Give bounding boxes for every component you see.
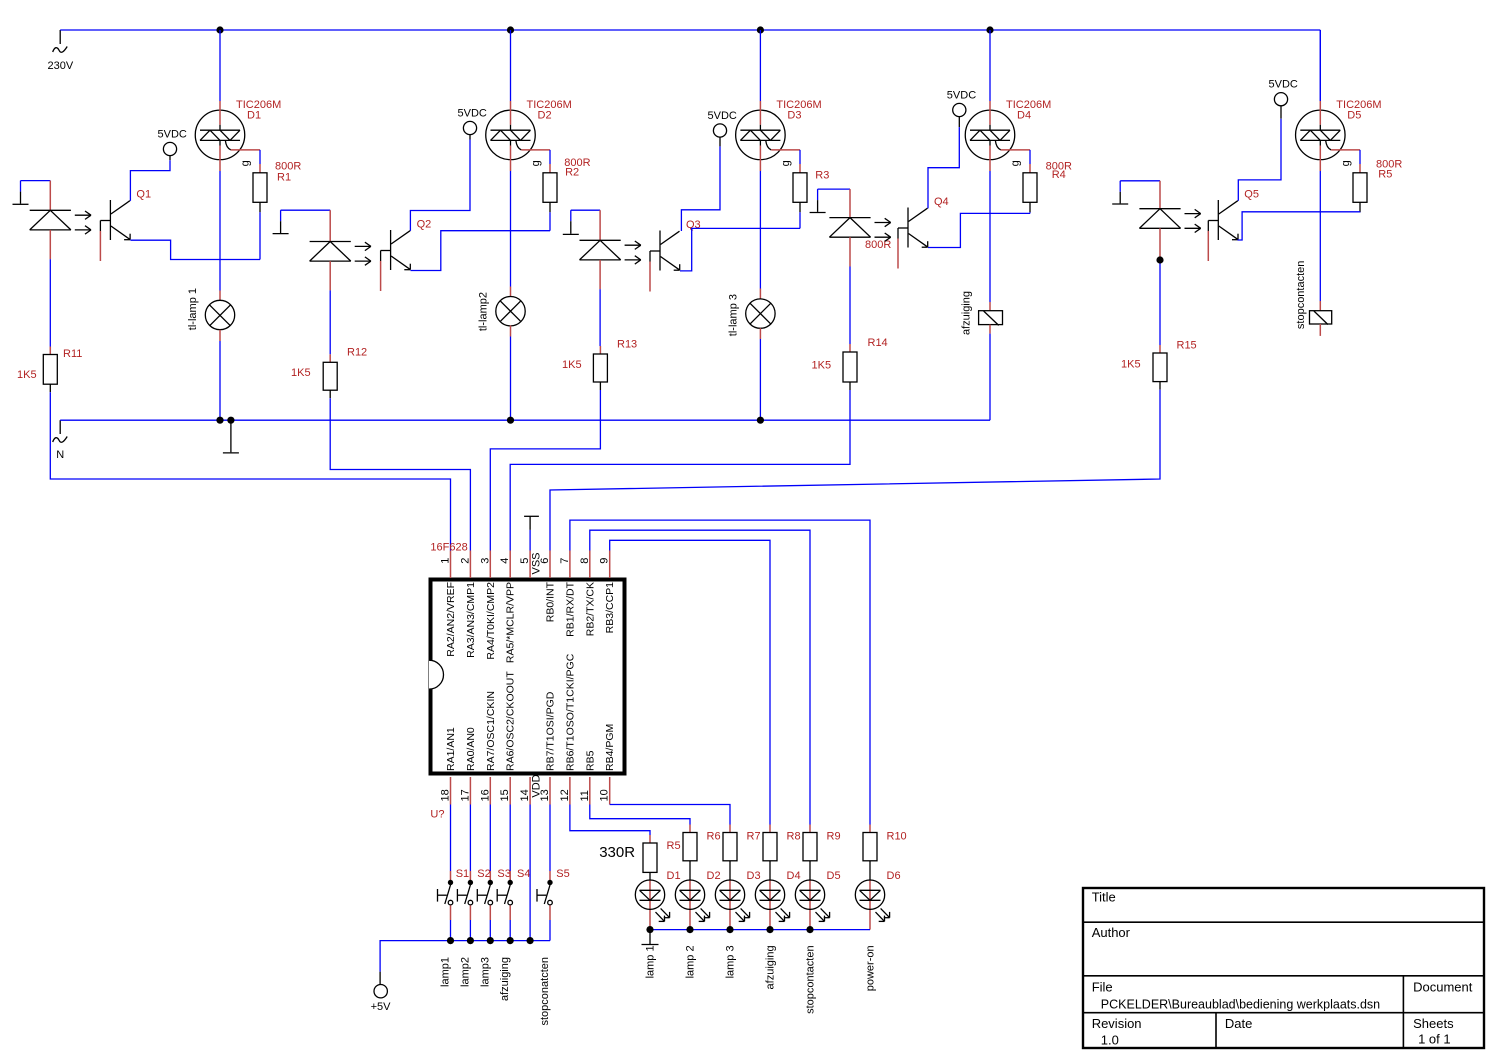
resistor R8 330R: [763, 825, 777, 861]
junction top rail / triac D3: [757, 26, 764, 33]
svg-text:RB1/RX/DT: RB1/RX/DT: [564, 581, 576, 636]
svg-text:Date: Date: [1225, 1016, 1252, 1031]
resistor R5 800R gate resistor: [1353, 150, 1402, 212]
transistor Q3 phototransistor: [650, 219, 701, 292]
svg-text:S5: S5: [556, 868, 569, 880]
label R9 D5: [827, 831, 841, 883]
wire R5 to Q5 emitter net: [1359, 211, 1361, 214]
svg-text:Document: Document: [1413, 980, 1473, 995]
svg-text:RB4/PGM: RB4/PGM: [604, 724, 616, 771]
svg-text:RA4/T0KI/CMP2: RA4/T0KI/CMP2: [485, 582, 497, 660]
svg-text:g: g: [240, 160, 252, 166]
wire VDD pin 14 to +5V bus: [529, 805, 531, 941]
PIC pin 14 bottom: [519, 777, 531, 805]
wire opto LED to 1K5 resistor stage 5: [1159, 258, 1161, 345]
svg-text:1.0: 1.0: [1101, 1032, 1119, 1047]
svg-text:D1: D1: [667, 870, 681, 882]
switch S2: [457, 868, 490, 920]
junction +5V bus: [507, 937, 514, 944]
svg-text:R14: R14: [868, 337, 888, 349]
svg-text:RB0/INT: RB0/INT: [545, 581, 557, 622]
junction +5V bus: [527, 937, 534, 944]
wire Q1 emitter to gate resistor: [130, 240, 260, 259]
svg-text:RA6/OSC2/CKOOUT: RA6/OSC2/CKOOUT: [505, 671, 517, 771]
wire triac D1 to lamp tl-lamp 1: [219, 171, 221, 291]
svg-text:R3: R3: [815, 170, 829, 182]
svg-text:S4: S4: [517, 868, 530, 880]
junction LED bus D4: [766, 926, 773, 933]
junction ground / N rail: [227, 417, 234, 424]
wire Q2 emitter to gate resistor: [411, 231, 551, 271]
wire triac D4 to relay afzuiging: [989, 171, 991, 302]
junction +5V bus: [487, 937, 494, 944]
PIC pin 5 top: [519, 551, 531, 579]
PIC pin 15 bottom: [499, 671, 517, 805]
ground opto LED stage 5: [1112, 181, 1128, 204]
resistor R11 1K5: [43, 347, 57, 393]
svg-text:N: N: [56, 449, 64, 461]
svg-text:RA7/OSC1/CKIN: RA7/OSC1/CKIN: [485, 691, 497, 771]
svg-text:power-on: power-on: [865, 945, 877, 991]
PIC pin 18 bottom: [440, 727, 458, 804]
wire PIC pin 10 to R7: [610, 805, 730, 825]
junction +5V bus: [447, 937, 454, 944]
junction LED bus D1: [646, 926, 653, 933]
svg-text:lamp2: lamp2: [459, 957, 471, 987]
svg-text:lamp 2: lamp 2: [685, 945, 697, 978]
terminal 5VDC stage 1: [158, 129, 187, 161]
svg-text:Q1: Q1: [136, 189, 151, 201]
svg-text:Sheets: Sheets: [1413, 1016, 1454, 1031]
transistor Q2 phototransistor: [381, 219, 432, 292]
svg-text:U?: U?: [430, 808, 444, 820]
wire Q4 emitter to gate resistor: [928, 213, 1030, 247]
terminal +5V: [371, 972, 392, 1013]
wire PIC to switch S1: [450, 805, 452, 872]
wire 5VDC to Q4 collector: [928, 127, 959, 208]
svg-text:800R: 800R: [865, 239, 891, 251]
svg-text:D6: D6: [887, 870, 901, 882]
junction LED bus D2: [686, 926, 693, 933]
wire PIC to switch S4: [509, 805, 511, 872]
svg-text:RA3/AN3/CMP1: RA3/AN3/CMP1: [465, 582, 477, 658]
label R6 D2: [707, 831, 721, 883]
wire triac D3 to lamp tl-lamp 3: [759, 171, 761, 289]
wire R15 to PIC pin 6: [550, 390, 1160, 551]
PIC pin 8 top: [579, 551, 597, 637]
junction lamp2 / N rail: [507, 417, 514, 424]
PIC pin 1 top: [440, 551, 458, 657]
relay coil afzuiging: [961, 291, 1003, 335]
terminal 5VDC stage 4: [947, 90, 976, 128]
wire switch S1 to +5V bus: [450, 920, 452, 941]
svg-text:+5V: +5V: [371, 1001, 392, 1013]
lamp tl-lamp2: [478, 287, 526, 337]
svg-text:16: 16: [479, 789, 491, 801]
svg-text:R2: R2: [565, 167, 579, 179]
svg-text:R7: R7: [747, 831, 761, 843]
junction lamp3 / N rail: [757, 417, 764, 424]
svg-text:lamp1: lamp1: [440, 957, 452, 987]
junction +5V bus: [467, 937, 474, 944]
resistor R4 800R gate resistor: [1023, 150, 1072, 212]
wire R3 to Q3 emitter net: [799, 212, 801, 228]
ground opto LED stage 3: [563, 210, 579, 234]
wire PIC pin 12 to R5: [570, 805, 650, 836]
svg-text:D2: D2: [707, 870, 721, 882]
svg-text:RB3/CCP1: RB3/CCP1: [604, 582, 616, 634]
ground opto LED stage 1: [13, 181, 29, 205]
wire PIC pin 9 to R8: [610, 540, 770, 824]
svg-text:Q5: Q5: [1244, 189, 1259, 201]
wire rail to triac D1: [219, 30, 221, 101]
wire 5VDC to Q3 collector: [681, 146, 720, 231]
LED D1: [635, 872, 669, 929]
source 230V phase terminal: [48, 30, 74, 72]
triac D4 TIC206M: [965, 99, 1051, 171]
junction top rail / triac D2: [507, 26, 514, 33]
svg-text:3: 3: [479, 558, 491, 564]
svg-text:Author: Author: [1092, 925, 1131, 940]
svg-text:5VDC: 5VDC: [708, 110, 737, 122]
svg-text:g: g: [1010, 160, 1022, 166]
svg-text:lamp 3: lamp 3: [725, 945, 737, 978]
svg-text:330R: 330R: [599, 844, 635, 861]
svg-text:R11: R11: [63, 348, 82, 360]
svg-text:g: g: [530, 160, 542, 166]
wire R14 to PIC pin 4: [510, 390, 850, 551]
opto LED diode stage 2: [310, 210, 371, 290]
wire switch S2 to +5V bus: [469, 920, 471, 941]
wire triac D2 to lamp tl-lamp2: [510, 171, 512, 287]
wire switch S3 to +5V bus: [489, 920, 491, 941]
LED D4: [755, 861, 789, 930]
wire switch S5 to +5V bus: [549, 920, 551, 941]
svg-text:D5: D5: [1347, 110, 1361, 122]
wire 5VDC to Q5 collector: [1238, 119, 1281, 201]
svg-text:5VDC: 5VDC: [158, 129, 187, 141]
svg-text:230V: 230V: [48, 60, 74, 72]
wire lamp 1 to N rail: [219, 341, 221, 420]
LED D5: [795, 861, 829, 930]
wire rail to triac D5: [1319, 30, 1321, 101]
wire ground to opto LED stage 1: [21, 180, 51, 182]
svg-text:R5: R5: [1378, 169, 1392, 181]
resistor R3 800R gate resistor: [793, 150, 891, 251]
source N neutral terminal: [53, 420, 67, 461]
PIC pin 13 bottom: [539, 691, 557, 804]
svg-text:D2: D2: [538, 110, 552, 122]
svg-text:RA1/AN1: RA1/AN1: [445, 727, 457, 771]
svg-text:R12: R12: [347, 347, 367, 359]
svg-text:11: 11: [579, 790, 591, 801]
triac D2 TIC206M: [486, 99, 572, 171]
svg-text:4: 4: [499, 558, 511, 564]
svg-text:7: 7: [559, 558, 571, 564]
junction LED bus D3: [726, 926, 733, 933]
svg-text:tl-lamp 3: tl-lamp 3: [728, 294, 740, 336]
resistor R13 1K5: [593, 346, 607, 390]
svg-text:afzuiging: afzuiging: [765, 945, 777, 989]
wire R11 to PIC pin 1: [50, 392, 450, 550]
opto LED diode stage 3: [580, 210, 641, 289]
PIC pin 7 top: [559, 551, 577, 637]
resistor R12 1K5: [323, 354, 337, 398]
svg-text:10: 10: [599, 789, 611, 801]
ground LED bus: [642, 930, 659, 945]
LED D6: [855, 861, 889, 930]
wire R12 to PIC pin 2: [330, 398, 470, 550]
wire Q3 emitter to gate resistor: [680, 228, 800, 271]
transistor Q5 phototransistor: [1208, 189, 1259, 262]
svg-text:tl-lamp2: tl-lamp2: [478, 292, 490, 331]
svg-text:D1: D1: [247, 110, 261, 122]
terminal 5VDC stage 2: [458, 108, 487, 140]
wire +5V bus: [380, 941, 550, 972]
IC U? PIC 16F628: [429, 542, 625, 821]
opto LED diode stage 4: [829, 189, 890, 266]
wire PIC to switch S3: [489, 805, 491, 872]
svg-text:D4: D4: [787, 870, 801, 882]
wire rail to triac D4: [989, 30, 991, 101]
PIC pin 6 top: [539, 551, 557, 623]
wire PIC pin 11 to R6: [590, 805, 690, 825]
svg-text:Revision: Revision: [1092, 1016, 1142, 1031]
svg-text:2: 2: [459, 558, 471, 564]
ground N rail: [223, 420, 239, 453]
PIC pin 4 top: [499, 551, 517, 664]
PIC pin 9 top: [599, 551, 617, 634]
svg-text:9: 9: [599, 558, 611, 564]
label R8 D4: [787, 831, 801, 883]
terminal 5VDC stage 3: [708, 110, 737, 146]
svg-text:1K5: 1K5: [812, 359, 832, 371]
svg-text:RA2/AN2/VREF: RA2/AN2/VREF: [445, 582, 457, 657]
wire afzuiging to N rail: [989, 334, 991, 421]
ground opto LED stage 2: [273, 210, 289, 233]
svg-text:R10: R10: [887, 831, 907, 843]
junction opto LED 5 anode: [1156, 256, 1163, 263]
svg-text:5VDC: 5VDC: [458, 108, 487, 120]
wire rail to triac D3: [759, 30, 761, 101]
svg-text:afzuiging: afzuiging: [499, 957, 511, 1001]
wire 230V top rail: [60, 29, 1320, 31]
switch S5: [537, 868, 570, 920]
PIC pin 2 top: [459, 551, 477, 658]
svg-text:R6: R6: [707, 831, 721, 843]
svg-text:Q4: Q4: [934, 196, 949, 208]
wire ground to opto LED stage 4: [818, 188, 850, 190]
svg-text:S1: S1: [456, 868, 469, 880]
svg-text:lamp3: lamp3: [479, 957, 491, 987]
svg-text:R1: R1: [277, 172, 291, 184]
svg-text:Title: Title: [1092, 890, 1116, 905]
label R7 D3: [747, 831, 761, 883]
svg-text:Q3: Q3: [686, 219, 701, 231]
svg-text:R13: R13: [617, 338, 637, 350]
svg-text:12: 12: [559, 789, 571, 801]
svg-text:RA0/AN0: RA0/AN0: [465, 727, 477, 771]
svg-text:5: 5: [519, 558, 531, 564]
switch S3: [477, 868, 511, 920]
svg-text:1K5: 1K5: [17, 369, 37, 381]
wire R13 to PIC pin 3: [490, 390, 600, 551]
resistor R1 800R gate resistor: [253, 150, 301, 212]
transistor Q1 phototransistor: [100, 189, 151, 262]
PIC pin 12 bottom: [559, 653, 577, 804]
wire PIC pin 7 to R10: [570, 520, 870, 824]
svg-text:File: File: [1092, 980, 1113, 995]
resistor R2 800R gate resistor: [543, 150, 591, 212]
svg-text:S2: S2: [477, 868, 490, 880]
triac D5 TIC206M: [1296, 99, 1382, 171]
wire rail to triac D2: [510, 30, 512, 101]
svg-text:g: g: [1340, 160, 1352, 166]
svg-text:R5: R5: [667, 840, 681, 852]
LED D3: [715, 861, 749, 930]
wire PIC to switch S5: [549, 805, 551, 872]
wire PIC pin 8 to R9: [590, 530, 810, 824]
svg-text:5VDC: 5VDC: [947, 90, 976, 102]
junction top rail / triac D1: [216, 26, 223, 33]
svg-text:stopcontacten: stopcontacten: [805, 945, 817, 1014]
opto LED diode stage 5: [1139, 181, 1200, 258]
resistor R9 330R: [803, 825, 817, 861]
opto LED diode stage 1: [30, 181, 91, 260]
transistor Q4 phototransistor: [898, 196, 949, 269]
triac D3 TIC206M: [736, 99, 822, 171]
label R10 D6: [887, 831, 907, 883]
label R5 D1: [667, 840, 681, 882]
svg-text:8: 8: [579, 558, 591, 564]
wire opto LED to 1K5 resistor stage 3: [599, 289, 601, 346]
resistor R15 1K5: [1153, 345, 1167, 390]
relay coil stopcontacten: [1295, 261, 1332, 336]
junction lamp1 / N rail: [216, 417, 223, 424]
resistor R5 330R: [643, 835, 657, 872]
LED D2: [675, 861, 709, 930]
wire triac D5 to relay stopcontacten: [1319, 30, 1321, 101]
svg-text:afzuiging: afzuiging: [961, 291, 973, 335]
svg-text:D3: D3: [787, 110, 801, 122]
svg-text:1 of 1: 1 of 1: [1418, 1032, 1451, 1047]
junction top rail / triac D4: [986, 26, 993, 33]
VSS power bar pin 5: [524, 516, 542, 574]
ground opto LED stage 4: [810, 189, 826, 212]
wire PIC to switch S2: [469, 805, 471, 872]
wire opto LED to 1K5 resistor stage 4: [849, 267, 851, 345]
wire N bottom rail: [60, 419, 990, 421]
switch S4: [497, 868, 530, 920]
svg-text:16F628: 16F628: [430, 542, 467, 554]
svg-text:1K5: 1K5: [1121, 359, 1141, 371]
wire R2 to Q2 emitter net: [549, 212, 551, 230]
svg-text:R4: R4: [1052, 169, 1066, 181]
svg-text:S3: S3: [497, 868, 510, 880]
wire opto LED to 1K5 resistor stage 1: [49, 259, 51, 346]
svg-text:RA5/*MCLR/VPP: RA5/*MCLR/VPP: [505, 582, 517, 663]
svg-text:1K5: 1K5: [291, 367, 311, 379]
PIC pin 11 bottom: [579, 750, 597, 804]
resistor R7 330R: [723, 825, 737, 861]
svg-text:Q2: Q2: [417, 219, 432, 231]
terminal 5VDC stage 5: [1269, 79, 1298, 119]
svg-text:1K5: 1K5: [562, 359, 582, 371]
svg-text:lamp 1: lamp 1: [645, 945, 657, 978]
svg-text:D4: D4: [1017, 110, 1031, 122]
wire 5VDC to Q2 collector: [410, 140, 470, 231]
svg-text:VDD: VDD: [531, 774, 543, 797]
resistor R6 330R: [683, 825, 697, 861]
title block: [1083, 888, 1484, 1048]
lamp tl-lamp 1: [187, 288, 235, 341]
wire LED cathode bus: [650, 929, 870, 931]
svg-text:15: 15: [499, 789, 511, 801]
svg-text:stopconatcten: stopconatcten: [539, 957, 551, 1026]
svg-text:D5: D5: [827, 870, 841, 882]
svg-text:R15: R15: [1177, 340, 1197, 352]
svg-text:RB6/T1OSO/T1CKI/PGC: RB6/T1OSO/T1CKI/PGC: [564, 653, 576, 771]
resistor R10 330R: [863, 825, 877, 861]
wire R1 to Q1 emitter net: [259, 212, 261, 259]
switch S1: [438, 868, 470, 920]
wire lamp 3 to N rail: [759, 339, 761, 420]
wire opto LED to 1K5 resistor stage 2: [329, 290, 331, 354]
svg-text:VSS: VSS: [531, 552, 543, 574]
wire Q5 emitter to gate resistor: [1238, 212, 1361, 240]
svg-text:RB2/TX/CK: RB2/TX/CK: [584, 582, 596, 636]
junction LED bus D5: [806, 926, 813, 933]
svg-text:g: g: [780, 160, 792, 166]
svg-text:17: 17: [459, 789, 471, 801]
wire ground to opto LED stage 5: [1120, 180, 1160, 182]
svg-text:D3: D3: [747, 870, 761, 882]
wire 5VDC to Q1 collector: [130, 160, 170, 201]
svg-text:tl-lamp 1: tl-lamp 1: [187, 288, 199, 330]
svg-text:14: 14: [519, 789, 531, 801]
svg-text:1: 1: [440, 558, 452, 564]
svg-text:RB5: RB5: [584, 750, 596, 771]
PIC pin 10 bottom: [599, 724, 617, 805]
triac D1 TIC206M: [195, 99, 281, 171]
PIC pin 3 top: [479, 551, 497, 660]
svg-text:R8: R8: [787, 831, 801, 843]
wire lamp 2 to N rail: [510, 337, 512, 421]
wire ground to opto LED stage 2: [281, 209, 331, 211]
svg-text:R9: R9: [827, 831, 841, 843]
resistor R14 1K5: [843, 344, 857, 390]
svg-text:RB7/T1OSI/PGD: RB7/T1OSI/PGD: [545, 691, 557, 771]
wire ground to opto LED stage 3: [571, 209, 600, 211]
wire switch S4 to +5V bus: [509, 920, 511, 941]
svg-text:18: 18: [440, 789, 452, 801]
svg-text:PCKELDER\Bureaublad\bediening: PCKELDER\Bureaublad\bediening werkplaats…: [1101, 997, 1380, 1011]
svg-text:stopcontacten: stopcontacten: [1295, 261, 1307, 330]
svg-text:5VDC: 5VDC: [1269, 79, 1298, 91]
lamp tl-lamp 3: [728, 289, 776, 340]
wire R4 to Q4 emitter net: [1029, 212, 1031, 213]
PIC pin 17 bottom: [459, 727, 477, 804]
PIC pin 16 bottom: [479, 691, 497, 804]
